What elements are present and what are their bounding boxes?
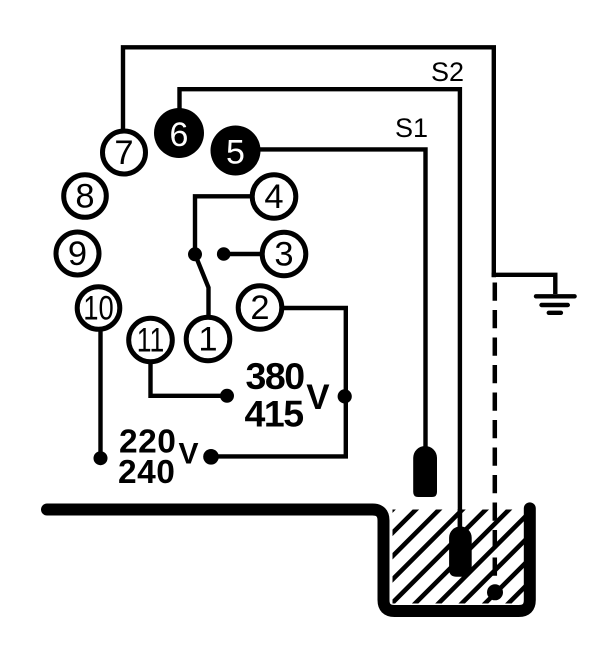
- wire pin 2 to 240V tap: [211, 308, 346, 456]
- wire contact to pin 3: [224, 252, 261, 256]
- node: contact of pin 3: [217, 247, 231, 261]
- pin 11: [129, 318, 173, 362]
- svg-text:5: 5: [226, 133, 245, 171]
- wire ground branch: [492, 275, 556, 294]
- wire pin 10 down to 220V terminal: [98, 331, 102, 458]
- svg-text:10: 10: [83, 290, 114, 328]
- wire S2: pin 6 to lower electrode: [180, 89, 460, 527]
- pin 10: [77, 287, 120, 330]
- electrode S1 (upper): [413, 446, 437, 497]
- svg-text:S1: S1: [395, 113, 428, 143]
- svg-text:415: 415: [245, 393, 304, 435]
- pin 8: [64, 175, 107, 218]
- pin 9: [56, 232, 99, 275]
- svg-text:7: 7: [114, 134, 133, 172]
- svg-text:8: 8: [75, 178, 94, 216]
- node: 220/240 left terminal: [94, 451, 108, 465]
- svg-text:4: 4: [264, 178, 283, 216]
- electrode S2 (lower): [449, 526, 472, 576]
- svg-text:V: V: [179, 438, 199, 471]
- pin 4: [252, 175, 296, 219]
- svg-text:9: 9: [68, 235, 87, 273]
- node: 380/415 left terminal: [220, 389, 234, 403]
- pin 1: [186, 317, 230, 361]
- svg-text:11: 11: [137, 322, 165, 360]
- liquid hatching: [275, 507, 600, 627]
- node: switch pivot: [188, 247, 202, 261]
- wire S1: pin 5 to upper electrode: [260, 149, 426, 448]
- pin 5 (filled): [211, 126, 261, 176]
- pin 2: [238, 286, 282, 330]
- node: 220/240 right terminal: [203, 449, 219, 465]
- wire S2 inside tank: [458, 509, 462, 528]
- wire pin 11 to 415V terminal: [151, 363, 228, 396]
- node: ball electrode on dashed wire: [487, 584, 503, 600]
- switch blade to pin 1: [195, 254, 209, 316]
- svg-text:240: 240: [118, 454, 175, 491]
- node: 380/415 right tap: [338, 389, 352, 403]
- svg-text:V: V: [306, 378, 330, 417]
- svg-text:1: 1: [198, 321, 217, 359]
- svg-text:3: 3: [274, 236, 293, 274]
- ground: [536, 296, 575, 313]
- svg-text:380: 380: [246, 355, 305, 397]
- wire from pin 7 to top rail and down right side: [123, 47, 494, 277]
- svg-text:6: 6: [170, 116, 189, 154]
- pin 7: [103, 131, 146, 174]
- pin 6 (filled): [154, 108, 204, 158]
- tank outline: [47, 508, 530, 611]
- wire dashed down to tank ball: [493, 283, 498, 586]
- svg-text:S2: S2: [431, 57, 464, 87]
- svg-text:2: 2: [250, 289, 269, 327]
- pin 3: [262, 232, 306, 276]
- wire pin 4 to switch pivot: [195, 196, 251, 252]
